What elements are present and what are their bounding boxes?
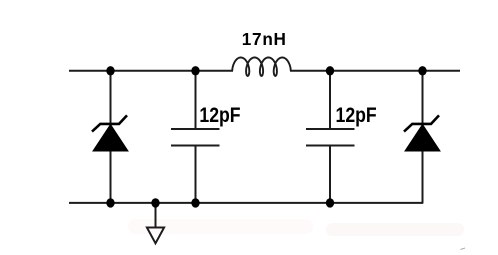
svg-text:12pF: 12pF [336,104,377,128]
wire: right diode bottom lead [422,150,424,203]
node: bottom rail / C2 junction [326,198,334,207]
wire: right capacitor top lead [329,71,331,129]
node: top rail / C1 junction [191,66,199,75]
wire: left capacitor bottom lead [195,146,197,203]
TVS diode D1 (left) [92,115,128,151]
wire: bottom rail [69,202,423,204]
faint watermark remnant band (left) [128,219,313,234]
node: bottom rail / ground junction [151,198,159,207]
wire: left capacitor top lead [195,71,197,129]
node: top rail / D2 junction [418,66,426,75]
wire: right capacitor bottom lead [329,146,331,203]
wire: top rail left segment [69,70,233,72]
svg-text:12pF: 12pF [199,104,240,128]
ground symbol [147,203,164,243]
node: top rail / D1 junction [106,66,114,75]
wire: top rail right segment [290,70,460,72]
capacitor C2 plates (12pF right) [306,129,355,146]
TVS diode D2 (right) [404,115,440,151]
wire: left diode bottom lead [110,150,112,203]
tiny stray mark bottom-right [461,248,466,250]
inductor L1 (17nH coil) [232,58,290,76]
capacitor C1 plates (12pF left) [171,129,220,146]
node: bottom rail / C1 junction [191,198,199,207]
node: top rail / C2 junction [326,66,334,75]
svg-text:17nH: 17nH [242,29,287,49]
wire: left diode top lead [110,71,112,126]
node: bottom rail / D1 junction [106,198,114,207]
faint watermark remnant band (right) [326,223,464,236]
wire: right diode top lead [422,71,424,126]
